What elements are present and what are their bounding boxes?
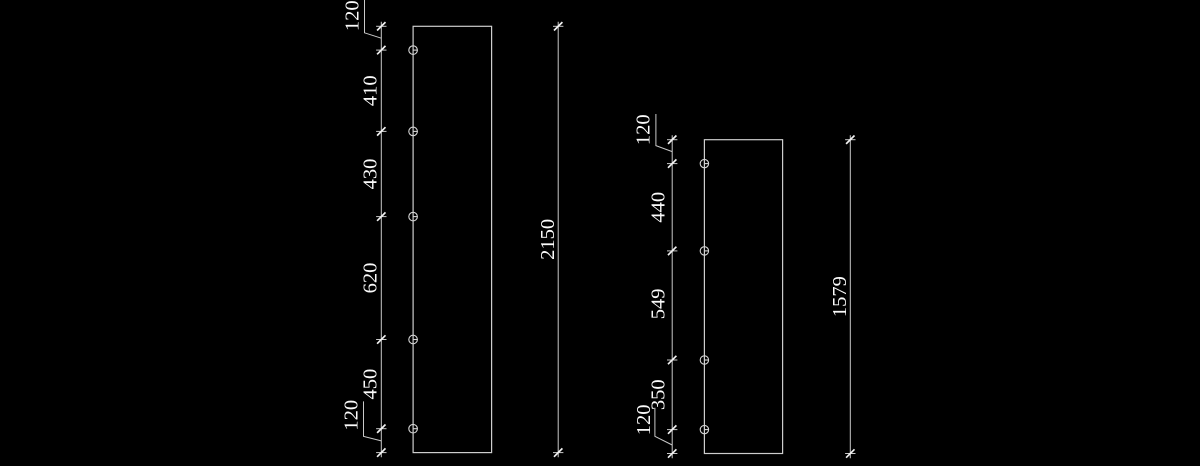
svg-text:430: 430 <box>359 159 381 190</box>
dim tick B y429 <box>667 425 677 433</box>
overall tick B top <box>845 136 855 144</box>
dim chain line B <box>671 135 673 458</box>
leader 120 bottom-right <box>633 405 672 445</box>
dim tick A y339 <box>376 335 386 343</box>
svg-text:1579: 1579 <box>829 276 851 317</box>
svg-text:120: 120 <box>342 0 364 31</box>
panel A outline <box>413 26 492 452</box>
dim tick A y131 <box>376 127 386 135</box>
dim tick A y216 <box>376 212 386 220</box>
leader 120 bottom-left <box>341 400 382 441</box>
dim tick A y428 <box>376 425 386 433</box>
dim tick B y250 <box>667 247 677 255</box>
svg-text:2150: 2150 <box>537 219 559 260</box>
svg-text:440: 440 <box>648 192 670 223</box>
svg-text:450: 450 <box>359 369 381 400</box>
hole A5 <box>409 424 418 433</box>
svg-text:410: 410 <box>359 75 381 106</box>
panel B outline <box>704 140 782 454</box>
hole A3 <box>409 212 418 221</box>
dim tick A y452 <box>376 448 386 456</box>
svg-text:120: 120 <box>341 400 363 431</box>
hole B4 <box>700 425 709 433</box>
hole A1 <box>409 46 418 55</box>
dim tick B y163 <box>667 159 677 167</box>
overall dim line B <box>849 135 851 458</box>
overall tick A bottom <box>553 448 563 456</box>
dim tick B y360 <box>667 356 677 364</box>
dim tick B y139 <box>667 136 677 144</box>
hole B3 <box>700 356 709 364</box>
leader 120 top-right <box>632 114 672 152</box>
dim chain line A <box>380 22 382 457</box>
overall dim line A <box>557 22 559 457</box>
overall tick A top <box>553 22 563 30</box>
hole B1 <box>700 159 709 167</box>
svg-text:549: 549 <box>648 289 670 320</box>
leader 120 top-left <box>342 0 382 38</box>
svg-text:120: 120 <box>633 405 655 436</box>
svg-text:120: 120 <box>632 114 654 145</box>
overall tick B bottom <box>845 449 855 457</box>
dim tick B y453 <box>667 449 677 457</box>
hole A2 <box>409 127 418 136</box>
svg-text:620: 620 <box>359 263 381 294</box>
dim tick A y26 <box>376 22 386 30</box>
dim tick A y50 <box>376 46 386 54</box>
hole A4 <box>409 335 418 344</box>
hole B2 <box>700 247 709 255</box>
